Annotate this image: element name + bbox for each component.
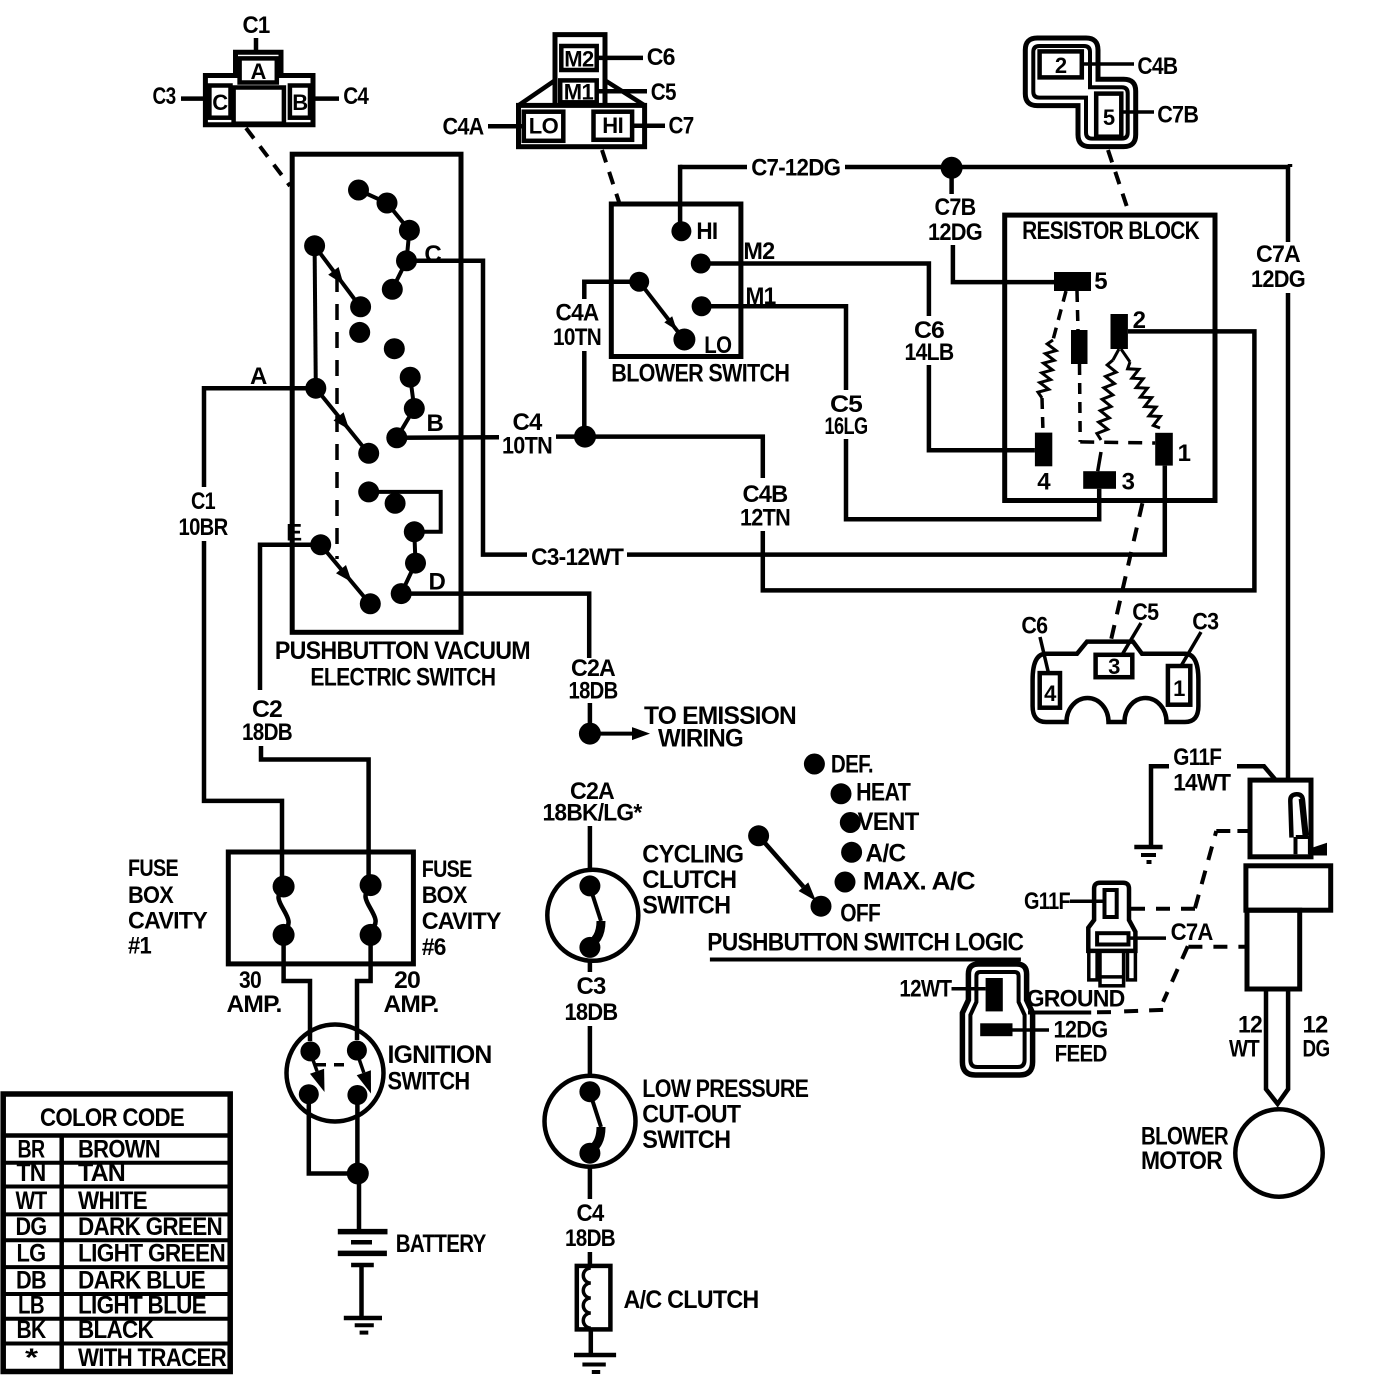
wire C6 lower to resistor terminal 4 <box>929 365 1035 450</box>
dashed link middle bar down <box>1078 364 1082 442</box>
low pressure bottom contact <box>579 1143 600 1164</box>
wire HI to C7-12DG <box>678 165 683 222</box>
dashed link terminal 5 to middle bar <box>1077 291 1078 330</box>
wire C4A lead <box>488 124 524 129</box>
A/C clutch coil <box>583 1268 590 1328</box>
svg-text:C3-12WT: C3-12WT <box>531 544 624 571</box>
svg-text:FUSE: FUSE <box>128 855 179 882</box>
svg-text:C4A: C4A <box>556 300 599 327</box>
svg-text:10TN: 10TN <box>553 324 601 351</box>
cavity LO <box>524 112 564 141</box>
logic HEAT contact <box>831 783 852 804</box>
svg-text:TAN: TAN <box>78 1159 125 1187</box>
fuse 1 terminals <box>273 876 295 898</box>
connector C1 body <box>205 52 313 124</box>
pushbutton switch arm 2 <box>316 388 367 451</box>
wire C7A into motor connector <box>1288 164 1293 167</box>
wire C7B drop upper <box>949 168 954 194</box>
logic VENT contact <box>840 812 861 833</box>
connector C1 cavity A <box>240 58 277 82</box>
svg-text:BOX: BOX <box>422 882 468 909</box>
svg-text:1: 1 <box>1173 676 1185 701</box>
A/C clutch box <box>577 1266 611 1330</box>
color code row TN <box>3 1185 230 1189</box>
svg-text:C7A: C7A <box>1171 919 1213 946</box>
lead G11F label to plug <box>1070 900 1105 904</box>
svg-text:B: B <box>427 410 444 437</box>
wire C4A lower <box>582 351 587 436</box>
svg-text:TN: TN <box>17 1159 46 1187</box>
resistor plug body <box>1033 642 1199 722</box>
svg-text:DEF.: DEF. <box>831 751 873 779</box>
wire C7-12DG left segment <box>680 165 747 170</box>
connector C1 center cavity <box>234 88 284 124</box>
color code row LB <box>3 1317 230 1321</box>
svg-text:12WT: 12WT <box>899 975 952 1002</box>
G11F bracket to ground <box>1151 766 1169 847</box>
svg-text:G11F: G11F <box>1024 888 1070 915</box>
svg-text:BK: BK <box>17 1316 47 1344</box>
ground below A/C clutch <box>574 1353 616 1358</box>
svg-text:MAX. A/C: MAX. A/C <box>863 868 976 896</box>
wire C4A from blower pole <box>584 282 639 299</box>
svg-text:14LB: 14LB <box>905 339 954 366</box>
cycling clutch switch circle <box>547 870 638 961</box>
wire HI-C7 lead <box>632 124 665 129</box>
pushbutton switch contact chain B <box>397 377 415 438</box>
solid stub into motor connector <box>1237 829 1250 833</box>
wire A/C clutch to ground <box>589 1329 594 1353</box>
cycling switch bottom contact <box>579 937 600 958</box>
dashed link C1 connector to pushbutton switch <box>246 128 290 186</box>
wire C3-12WT right segment to resistor terminal 1 <box>627 466 1165 555</box>
logic OFF contact <box>811 896 832 917</box>
pushbutton switch arm 1 <box>315 246 359 305</box>
resistor block box <box>1005 215 1215 500</box>
svg-text:C7B: C7B <box>935 194 976 221</box>
cycling switch top contact <box>579 875 600 896</box>
wire B to C4 junction <box>397 435 499 440</box>
color code row BK <box>3 1342 230 1346</box>
svg-text:AMP.: AMP. <box>227 991 282 1018</box>
dashed link connector to resistor block <box>1108 150 1129 213</box>
dashed link to terminal 1 <box>1080 442 1155 443</box>
svg-text:CAVITY: CAVITY <box>422 908 502 935</box>
emission arrow <box>590 732 632 736</box>
low pressure top contact <box>579 1081 600 1102</box>
wire C7B drop lower <box>953 245 1054 282</box>
svg-text:BLOWER SWITCH: BLOWER SWITCH <box>611 360 789 388</box>
svg-text:18DB: 18DB <box>242 719 292 746</box>
svg-text:20: 20 <box>394 967 420 994</box>
battery plate 2 <box>351 1240 372 1245</box>
svg-text:SWITCH: SWITCH <box>388 1068 470 1096</box>
svg-text:A: A <box>251 59 267 84</box>
logic underline <box>710 958 1021 962</box>
svg-text:18DB: 18DB <box>565 1225 615 1252</box>
blower switch M2 contact <box>691 254 711 274</box>
wire M2 to C6 <box>701 264 929 317</box>
dashed link terminal 5 to left element <box>1053 291 1066 340</box>
svg-text:A/C CLUTCH: A/C CLUTCH <box>624 1286 759 1314</box>
pushbutton vacuum electric switch box <box>292 154 461 632</box>
blower switch pole <box>629 272 649 292</box>
plug cavity 4 <box>1040 673 1060 708</box>
svg-text:12: 12 <box>1303 1012 1328 1039</box>
svg-text:WT: WT <box>1229 1036 1260 1063</box>
svg-text:3: 3 <box>1108 654 1120 679</box>
plug cavity 3 <box>1096 655 1133 677</box>
svg-text:C: C <box>424 241 441 268</box>
svg-text:1: 1 <box>1178 440 1191 467</box>
wire C2 lower to fuse box <box>261 746 369 885</box>
resistor terminal 1 <box>1155 433 1173 466</box>
blower switch arm <box>639 282 682 337</box>
svg-text:C1: C1 <box>243 12 270 39</box>
wire M1-C5 lead <box>597 89 647 94</box>
wire C7A 12DG vertical lower <box>1286 293 1291 781</box>
svg-text:LO: LO <box>529 114 559 139</box>
motor connector box <box>1250 780 1311 857</box>
connector tower body <box>555 35 605 106</box>
svg-text:VENT: VENT <box>858 808 919 836</box>
resistor terminal 5 <box>1054 272 1091 291</box>
svg-text:C7: C7 <box>669 113 694 140</box>
wire M2-C6 lead <box>597 56 643 61</box>
junction C7B <box>941 157 963 179</box>
svg-text:CYCLING: CYCLING <box>642 841 743 869</box>
wire cycling to C3 18DB <box>588 961 593 972</box>
svg-text:12DG: 12DG <box>1054 1016 1108 1043</box>
lead C5 to cavity 3 <box>1122 623 1141 655</box>
svg-text:C6: C6 <box>647 44 675 71</box>
cavity M1 <box>560 80 597 102</box>
svg-text:C7-12DG: C7-12DG <box>751 155 840 182</box>
ignition contact bottom-right <box>347 1085 367 1105</box>
wire D to C2A <box>401 594 589 658</box>
battery plate 4 <box>351 1263 374 1268</box>
motor connector blade foot <box>1296 836 1310 854</box>
fuse 6 element <box>365 889 375 929</box>
svg-text:4: 4 <box>1037 469 1051 496</box>
svg-text:CLUTCH: CLUTCH <box>642 866 736 894</box>
svg-text:DARK BLUE: DARK BLUE <box>78 1267 205 1295</box>
svg-text:WITH TRACER: WITH TRACER <box>78 1344 227 1372</box>
color code row DB <box>3 1292 230 1296</box>
wire C4 lead <box>313 96 339 101</box>
svg-text:AMP.: AMP. <box>384 991 439 1018</box>
ignition dashed link <box>316 1063 352 1067</box>
svg-text:C7A: C7A <box>1256 241 1300 268</box>
pushbutton switch arm 3 <box>321 545 368 602</box>
svg-text:G11F: G11F <box>1173 744 1221 771</box>
fuse box <box>228 852 413 964</box>
svg-text:12DG: 12DG <box>928 219 982 246</box>
blower motor circle <box>1235 1109 1322 1196</box>
svg-text:LIGHT GREEN: LIGHT GREEN <box>78 1240 225 1268</box>
ground below battery <box>344 1316 382 1321</box>
svg-text:HEAT: HEAT <box>856 778 910 806</box>
lead 12DG to terminal <box>1013 1028 1050 1032</box>
svg-text:#1: #1 <box>128 933 151 960</box>
wire C3 lead <box>181 96 205 101</box>
color code table frame <box>3 1094 230 1372</box>
G11F plug slot <box>1105 890 1117 917</box>
wire C4B path <box>585 437 763 478</box>
lead G11F plug bar to C7A <box>1129 936 1167 940</box>
svg-text:14WT: 14WT <box>1173 770 1231 797</box>
svg-text:FUSE: FUSE <box>422 856 473 883</box>
svg-text:C3: C3 <box>153 83 176 110</box>
svg-text:5: 5 <box>1094 268 1107 295</box>
wire M1 to C5 <box>702 306 846 390</box>
connector shoulder right <box>605 80 645 105</box>
motor shaft <box>1266 989 1288 1104</box>
pushbutton switch contact chain D <box>401 532 415 594</box>
svg-text:PUSHBUTTON VACUUM: PUSHBUTTON VACUUM <box>275 637 530 665</box>
svg-text:DG: DG <box>16 1213 47 1241</box>
wire cavity5-C7B lead <box>1121 110 1154 114</box>
pushbutton switch pole 3 (E) <box>310 534 331 555</box>
battery plate 1 <box>338 1229 388 1235</box>
plug cavity 1 <box>1168 666 1190 705</box>
fuse 6 terminals <box>360 874 382 896</box>
wire low pressure to C4 18DB <box>588 1167 593 1199</box>
motor connector foot flag <box>1310 844 1327 856</box>
svg-text:18BK/LG*: 18BK/LG* <box>543 800 643 827</box>
logic arm to OFF <box>759 836 804 887</box>
lead C6 to cavity 4 <box>1040 637 1049 673</box>
svg-text:C4: C4 <box>577 1200 605 1227</box>
dashed link G11F plug to motor connector <box>1131 907 1195 911</box>
svg-text:C4A: C4A <box>443 114 484 141</box>
resistor element from terminal 2 to 3 <box>1113 349 1119 360</box>
ground G11F <box>1134 845 1162 850</box>
wire C terminal to C3-12WT <box>407 261 528 555</box>
svg-text:#6: #6 <box>422 934 446 961</box>
junction emission <box>579 723 601 745</box>
low pressure switch arm <box>590 1093 601 1127</box>
G11F plug prongs <box>1089 951 1097 980</box>
pushbutton switch bracket D <box>369 492 441 532</box>
svg-text:C: C <box>212 90 228 115</box>
motor wide box <box>1246 866 1331 910</box>
wire C4 to A/C clutch <box>588 1252 593 1268</box>
G11F plug bar <box>1097 933 1128 944</box>
feed connector inner outline <box>970 972 1024 1067</box>
svg-text:C4: C4 <box>343 83 369 110</box>
svg-text:FEED: FEED <box>1055 1040 1107 1067</box>
cavity HI <box>594 112 633 140</box>
svg-text:2: 2 <box>1133 307 1146 334</box>
svg-text:3: 3 <box>1122 469 1135 496</box>
svg-text:HI: HI <box>602 113 623 138</box>
blower switch LO contact <box>673 329 695 351</box>
connector C1 cavity B <box>290 86 310 118</box>
svg-text:HI: HI <box>696 218 717 245</box>
dashed link left element to terminal 4 <box>1042 398 1043 432</box>
logic DEF contact <box>804 754 825 775</box>
ignition arm left <box>311 1053 318 1071</box>
logic A/C contact <box>841 842 862 863</box>
svg-text:C1: C1 <box>191 488 215 515</box>
svg-text:A/C: A/C <box>865 840 906 868</box>
svg-text:12DG: 12DG <box>1251 266 1305 293</box>
dashed link C7A to motor shaft <box>1188 945 1247 949</box>
svg-text:PUSHBUTTON SWITCH LOGIC: PUSHBUTTON SWITCH LOGIC <box>707 929 1024 957</box>
dashed link resistor block to plug <box>1111 503 1142 640</box>
svg-text:12: 12 <box>1238 1012 1262 1039</box>
color code row BR <box>3 1161 230 1165</box>
ignition contact top-right <box>347 1041 367 1061</box>
svg-text:WHITE: WHITE <box>78 1187 147 1215</box>
cycling switch arm <box>590 887 601 921</box>
wire ignition to battery junction right <box>355 1095 360 1174</box>
svg-text:BATTERY: BATTERY <box>396 1230 487 1258</box>
svg-text:LOW PRESSURE: LOW PRESSURE <box>642 1075 808 1103</box>
svg-text:4: 4 <box>1044 681 1057 706</box>
svg-text:LO: LO <box>704 332 731 359</box>
blower switch box <box>611 204 741 357</box>
resistor element left <box>1038 340 1056 398</box>
blower switch M1 contact <box>692 296 712 316</box>
resistor element from terminal 2 to 1 <box>1121 349 1130 362</box>
svg-text:C3: C3 <box>577 973 606 1000</box>
wire C4B lower to resistor terminal 2 <box>763 331 1255 590</box>
pushbutton switch pole 1 <box>304 235 325 256</box>
wire fuse1 to ignition <box>284 935 310 1041</box>
svg-text:SWITCH: SWITCH <box>642 1126 730 1154</box>
dashed link C7A to ground feed connector <box>1163 946 1188 1002</box>
svg-text:CUT-OUT: CUT-OUT <box>642 1101 740 1129</box>
fuse 1 element <box>278 890 288 930</box>
dashed link plug to blower switch <box>602 150 619 202</box>
pushbutton switch port dots mid <box>349 322 370 343</box>
svg-text:30: 30 <box>239 967 261 994</box>
svg-text:BOX: BOX <box>128 882 174 909</box>
svg-text:MOTOR: MOTOR <box>1141 1147 1223 1175</box>
svg-text:DG: DG <box>1303 1036 1330 1063</box>
wire C2A 18BK to cycling switch <box>588 826 593 871</box>
pushbutton switch contact chain C <box>359 190 410 289</box>
battery plate 3 <box>338 1251 387 1257</box>
wire ignition to battery junction left <box>309 1094 358 1173</box>
feed 12WT terminal <box>986 978 1003 1011</box>
svg-text:WIRING: WIRING <box>658 725 743 753</box>
color code header rule <box>3 1133 230 1138</box>
color code row DG <box>3 1238 230 1242</box>
svg-text:C3: C3 <box>1192 608 1218 635</box>
svg-text:RESISTOR BLOCK: RESISTOR BLOCK <box>1022 217 1200 245</box>
wire E to C2 upper <box>260 545 321 690</box>
lead G11F 14WT to motor connector <box>1237 766 1275 779</box>
svg-text:WT: WT <box>16 1187 47 1215</box>
wire C1 lower to fuse box <box>204 541 282 887</box>
svg-text:10BR: 10BR <box>179 514 228 541</box>
svg-text:16LG: 16LG <box>825 413 868 440</box>
ignition switch circle <box>287 1025 384 1122</box>
logic MAX A/C contact <box>835 872 856 893</box>
svg-text:BLACK: BLACK <box>78 1316 154 1344</box>
wire C1 lead <box>254 38 259 52</box>
ignition arm right <box>357 1053 364 1073</box>
color code row LG <box>3 1265 230 1269</box>
wire fuse6 to ignition <box>357 935 371 1040</box>
cavity M2 <box>561 46 596 70</box>
svg-text:ELECTRIC SWITCH: ELECTRIC SWITCH <box>310 663 495 691</box>
svg-text:C5: C5 <box>1132 599 1158 626</box>
svg-text:B: B <box>292 90 307 115</box>
ignition contact bottom-left <box>299 1084 319 1104</box>
connector C4B/C7B outer outline <box>1025 38 1135 147</box>
motor connector blade <box>1290 794 1306 837</box>
svg-text:OFF: OFF <box>840 899 880 927</box>
color code column rule <box>59 1136 64 1372</box>
svg-text:CAVITY: CAVITY <box>128 907 208 934</box>
cavity 5 <box>1096 94 1121 137</box>
connector C4B/C7B inner outline <box>1033 46 1127 139</box>
svg-text:10TN: 10TN <box>502 433 552 460</box>
low pressure cut-out switch circle <box>545 1076 636 1167</box>
svg-text:DB: DB <box>16 1267 46 1295</box>
resistor terminal 3 <box>1083 471 1116 489</box>
ignition contact top-left <box>300 1041 320 1061</box>
svg-text:*: * <box>25 1344 38 1372</box>
pushbutton switch dashed centerline <box>335 276 339 559</box>
connector C1 cavity C <box>209 86 230 118</box>
motor narrow box <box>1247 910 1300 989</box>
svg-text:LG: LG <box>17 1240 46 1268</box>
connector base body <box>519 105 645 146</box>
link element to terminal 3 <box>1098 452 1101 471</box>
svg-text:18DB: 18DB <box>565 999 618 1026</box>
svg-text:COLOR CODE: COLOR CODE <box>40 1104 184 1132</box>
svg-text:C5: C5 <box>651 79 676 106</box>
svg-text:18DB: 18DB <box>569 678 618 705</box>
wire A to C1 upper <box>204 388 316 487</box>
blower switch HI contact <box>671 221 691 241</box>
lead C3 to cavity 1 <box>1181 632 1201 666</box>
svg-text:C7B: C7B <box>1157 101 1198 128</box>
wire C2A lower <box>588 703 593 734</box>
pushbutton switch pole 2 <box>305 378 326 399</box>
wire C7-12DG right segment <box>845 165 1288 170</box>
svg-text:C4B: C4B <box>1137 53 1177 80</box>
feed connector outer outline <box>962 964 1032 1075</box>
svg-text:5: 5 <box>1103 105 1115 130</box>
ground label underline dashes <box>1028 1011 1091 1015</box>
wire C3 to low pressure switch <box>588 1026 593 1076</box>
svg-text:SWITCH: SWITCH <box>642 892 730 920</box>
junction battery <box>347 1163 369 1185</box>
junction C4 <box>574 426 596 448</box>
logic pole <box>748 825 769 846</box>
svg-text:GROUND: GROUND <box>1027 985 1125 1012</box>
svg-text:DARK GREEN: DARK GREEN <box>78 1213 222 1241</box>
svg-text:C6: C6 <box>1021 613 1047 640</box>
wire cavity2-C4B lead <box>1082 62 1134 66</box>
lead 12WT to terminal <box>952 987 986 991</box>
resistor terminal 2 <box>1111 314 1128 349</box>
feed 12DG terminal <box>980 1023 1012 1036</box>
svg-text:IGNITION: IGNITION <box>388 1041 492 1069</box>
wire battery to ground <box>359 1265 364 1318</box>
cavity 2 <box>1040 51 1082 77</box>
pushbutton switch pole link <box>315 246 316 388</box>
resistor middle bar <box>1071 330 1088 364</box>
svg-text:M2: M2 <box>743 238 774 265</box>
svg-text:M1: M1 <box>564 80 594 105</box>
